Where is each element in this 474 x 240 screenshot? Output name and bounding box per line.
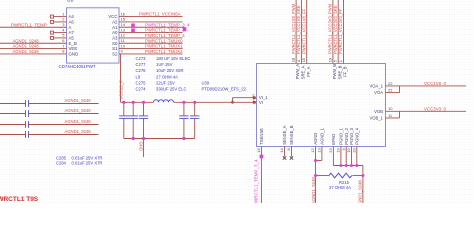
capacitor C273 <box>119 102 128 138</box>
svg-text:S1: S1 <box>112 46 118 51</box>
svg-text:PWRCTL1_VCC1V8_SRE: PWRCTL1_VCC1V8_SRE <box>296 5 301 54</box>
svg-text:A2: A2 <box>112 20 118 25</box>
svg-text:PGND_1: PGND_1 <box>339 127 344 144</box>
no-connect X SENSE_A <box>283 147 286 160</box>
svg-text:C275: C275 <box>136 81 147 86</box>
svg-text:C277: C277 <box>136 62 147 67</box>
svg-text:VOB: VOB <box>374 109 383 114</box>
svg-text:C274: C274 <box>136 87 147 92</box>
power module U39 PTD08D210W body <box>257 64 386 147</box>
U39 left pin numbers 2 and 1 <box>252 93 255 103</box>
junction pink square on pin13 wire <box>131 28 135 32</box>
svg-text:AGND1_9248: AGND1_9248 <box>65 98 92 103</box>
svg-text:VOB_1: VOB_1 <box>369 116 383 121</box>
wire pin3 PWRCTL1_TEMP <box>0 26 67 28</box>
svg-text:10: 10 <box>388 106 393 111</box>
svg-text:FF_A: FF_A <box>306 66 311 76</box>
svg-text:PWM_A: PWM_A <box>295 64 300 80</box>
capacitor C278 <box>139 102 148 138</box>
svg-text:PTD08D210W_EFS_22: PTD08D210W_EFS_22 <box>202 87 247 92</box>
wire FF_A net PWRCTL1_VCC1V8_FF <box>301 0 306 64</box>
wire PGND bus <box>333 165 363 167</box>
svg-text:AGND_1: AGND_1 <box>320 127 325 144</box>
wire pin11 net PWRCTL1_TMUX0 <box>119 38 183 43</box>
svg-text:C278: C278 <box>136 68 147 73</box>
svg-text:VCC: VCC <box>108 14 117 19</box>
svg-text:U39: U39 <box>202 81 210 86</box>
svg-text:AGND1_9248: AGND1_9248 <box>65 108 92 113</box>
capacitor C274 <box>190 102 199 138</box>
svg-text:A7: A7 <box>69 30 75 35</box>
capacitor C284 row AGND1_9248 <box>0 119 99 128</box>
value CD74HC4051PWT <box>59 64 96 69</box>
wire GND stub <box>143 139 145 158</box>
svg-text:PWRCTL1_TEMP_3_4: PWRCTL1_TEMP_3_4 <box>145 22 190 27</box>
wire PWM_B net PWRCTL1_VCC3V3_PWM <box>328 0 333 64</box>
refdes R215 <box>339 180 350 185</box>
svg-text:FF_B: FF_B <box>343 66 348 76</box>
svg-text:15: 15 <box>301 57 306 62</box>
U39 right pin names <box>369 84 383 121</box>
svg-text:AGND1_9248: AGND1_9248 <box>13 38 40 43</box>
svg-text:12: 12 <box>121 33 126 38</box>
svg-text:16: 16 <box>121 11 126 16</box>
svg-text:VOA: VOA <box>374 90 383 95</box>
wire VCC12_P vertical feed <box>120 54 122 102</box>
svg-text:18: 18 <box>291 57 296 62</box>
svg-text:CD74HC4051PWT: CD74HC4051PWT <box>59 64 96 69</box>
U39 right pin 22 wire net VCC1V8_0 <box>386 81 467 86</box>
svg-text:S0: S0 <box>112 41 118 46</box>
svg-text:TSENSE: TSENSE <box>259 128 264 145</box>
svg-text:VEE: VEE <box>69 46 78 51</box>
BOM text block <box>136 56 191 92</box>
svg-text:A6: A6 <box>69 20 75 25</box>
svg-text:13: 13 <box>121 27 126 32</box>
no-connect X SENSE_B <box>290 147 293 160</box>
node PWRCTL1_TEMP label <box>11 22 47 27</box>
svg-text:PWRCTL1_VCC3V3_SRE: PWRCTL1_VCC3V3_SRE <box>333 5 338 54</box>
svg-text:20: 20 <box>352 148 357 153</box>
svg-text:PGND_3: PGND_3 <box>349 127 354 144</box>
wire pin15 dangling <box>119 21 183 23</box>
svg-text:PWRCTL1_VCC3V3_FF: PWRCTL1_VCC3V3_FF <box>338 8 343 54</box>
svg-text:A3: A3 <box>112 36 118 41</box>
svg-text:AGND: AGND <box>313 133 318 145</box>
wire filter top rail right of L9 <box>174 101 257 103</box>
U39 bottom pin names inside <box>259 125 359 145</box>
svg-text:10: 10 <box>346 148 351 153</box>
svg-text:VCC12_P: VCC12_P <box>119 80 124 100</box>
wire pin14 net PWRCTL1_TEMP_3_4 <box>119 22 190 27</box>
wire branch to module pin2 <box>233 98 257 103</box>
svg-text:A1: A1 <box>112 25 118 30</box>
svg-text:C273: C273 <box>136 56 147 61</box>
svg-text:SENSE_B: SENSE_B <box>289 125 294 145</box>
svg-text:AGND1_9248: AGND1_9248 <box>311 177 316 203</box>
svg-text:19: 19 <box>327 57 332 62</box>
svg-text:C284: C284 <box>56 161 67 166</box>
svg-text:E_B: E_B <box>69 41 77 46</box>
wire PWM_A net PWRCTL1_VCC1V8_PWM <box>291 0 296 64</box>
wire EPAD drop <box>332 147 334 166</box>
svg-text:22UF 25V: 22UF 25V <box>156 81 175 86</box>
svg-text:L9: L9 <box>136 74 141 79</box>
svg-text:14: 14 <box>121 22 126 27</box>
refdes U8 <box>67 0 74 3</box>
svg-text:VI: VI <box>259 100 263 105</box>
U8 pin5 dangling stub <box>51 36 67 39</box>
svg-text:15: 15 <box>121 17 126 22</box>
capacitor C283 row AGND1_9248 <box>0 98 99 107</box>
svg-text:PWRCTL1_TEMP: PWRCTL1_TEMP <box>11 22 47 27</box>
node title PWRCTL1 T9S <box>0 196 39 203</box>
junction dot AGND join <box>314 159 317 162</box>
U39 bottom pin numbers <box>256 148 356 153</box>
junction pink square on TSENSE wire <box>260 155 264 159</box>
junction dots filter bottom rail <box>132 137 186 140</box>
svg-text:16: 16 <box>256 148 261 153</box>
svg-text:AGND1_9248: AGND1_9248 <box>357 180 362 203</box>
svg-text:A5: A5 <box>69 36 75 41</box>
wire pin9 net PWRCTL1_TMUX2 <box>119 49 183 54</box>
svg-text:PWRCTL1_VCC1V8_PWM: PWRCTL1_VCC1V8_PWM <box>291 3 296 54</box>
node GND label <box>138 142 143 151</box>
wire PGND_3 drop <box>351 147 353 166</box>
svg-text:330UF 25V ELC: 330UF 25V ELC <box>156 87 187 92</box>
wire PGND_4 drop <box>356 147 358 166</box>
wire AGND_1 pin13 jog <box>316 147 322 161</box>
U8 left pin names <box>69 14 79 56</box>
svg-text:PWRCTL1_VCCIN5A: PWRCTL1_VCCIN5A <box>139 12 181 17</box>
svg-text:VCC3V3_0: VCC3V3_0 <box>424 106 447 111</box>
svg-text:EPAD: EPAD <box>331 134 336 145</box>
node VCC12_P label <box>119 80 124 100</box>
svg-text:VOA_1: VOA_1 <box>369 84 383 89</box>
U8 right pin numbers <box>121 11 126 53</box>
svg-text:PWRCTL1_TEMP_3_4: PWRCTL1_TEMP_3_4 <box>254 159 259 203</box>
wire PGND_1 drop <box>340 147 342 166</box>
wire PGND_2 drop <box>345 147 347 166</box>
value 27 OHM 4A <box>329 185 351 190</box>
junction dot R215 left <box>314 174 317 177</box>
svg-text:SRE_A: SRE_A <box>301 65 306 79</box>
svg-text:PWRCTL1_TMUX2: PWRCTL1_TMUX2 <box>145 49 183 54</box>
wire pin8 AGND1_9248 <box>0 49 67 54</box>
junction pink square end of pin14 wire <box>183 28 187 32</box>
svg-text:27 OHM 4A: 27 OHM 4A <box>156 74 178 79</box>
U39 right pin 21 wire <box>386 86 400 93</box>
U39 top pin numbers <box>291 57 343 62</box>
svg-text:SENSE_A: SENSE_A <box>282 125 287 145</box>
svg-text:PWRCTL1_VCC3V3_PWM: PWRCTL1_VCC3V3_PWM <box>328 3 333 54</box>
svg-text:180 UF 16V ELEC: 180 UF 16V ELEC <box>156 56 190 61</box>
svg-text:PWRCTL1_TMUX1: PWRCTL1_TMUX1 <box>145 44 183 49</box>
inductor L9 <box>154 100 174 103</box>
svg-text:S2: S2 <box>112 52 118 57</box>
wire pin13 net PWRCTL1_TEMP_3 <box>119 28 185 33</box>
U8 pin2 dangling stub <box>51 20 67 23</box>
svg-text:AGND1_9248: AGND1_9248 <box>65 129 92 134</box>
svg-text:13: 13 <box>317 148 322 153</box>
svg-text:GND: GND <box>138 142 143 151</box>
svg-text:PWM_B: PWM_B <box>332 64 337 80</box>
U8 pin1 dangling stub <box>51 15 67 18</box>
junction dot at branch <box>231 101 234 104</box>
node AGND1_9248 label left <box>311 177 316 204</box>
svg-text:12: 12 <box>310 148 315 153</box>
U39 right pin 10 wire net VCC3V3_0 <box>386 106 467 111</box>
svg-text:SRE_B: SRE_B <box>337 65 342 79</box>
U8 right pin names <box>108 14 118 56</box>
capacitor C285 row AGND1_9248 <box>0 108 99 117</box>
svg-text:A: A <box>69 25 72 30</box>
svg-text:14: 14 <box>279 148 284 153</box>
svg-text:21: 21 <box>388 88 393 93</box>
svg-text:VCC1V8_0: VCC1V8_0 <box>424 81 447 86</box>
op-amp U8 analog mux CD74HC4051PWT body <box>67 8 120 63</box>
wire AGND pin12 down <box>315 147 317 204</box>
U39 right pin numbers <box>388 81 393 118</box>
wire pin10 net PWRCTL1_TMUX1 <box>119 44 183 49</box>
junction dots filter top rail <box>122 101 196 104</box>
value PTD08D210W_EFS_22 <box>202 87 247 92</box>
svg-text:27 OHM 4A: 27 OHM 4A <box>329 185 351 190</box>
svg-text:A4: A4 <box>69 14 75 19</box>
wire TSENSE net PWRCTL1_TEMP_3_4 <box>254 147 262 207</box>
svg-text:U8: U8 <box>67 0 74 3</box>
node AGND1_9248 label right <box>357 180 362 207</box>
U39 left pin names VI_1 VI <box>259 95 268 105</box>
svg-text:A0: A0 <box>112 30 118 35</box>
wire FF_B net PWRCTL1_VCC3V3_FF <box>338 0 343 64</box>
svg-text:PWRCTL1_TEMP_4: PWRCTL1_TEMP_4 <box>145 33 185 38</box>
U8 pin4 dangling stub <box>51 31 67 34</box>
wire pin7 AGND1_9248 <box>0 44 67 49</box>
U39 right pin 11 wire <box>386 111 400 118</box>
svg-text:AGND1_9248: AGND1_9248 <box>65 119 92 124</box>
wire filter top rail left of L9 <box>121 101 154 103</box>
capacitor C275 <box>179 102 188 138</box>
svg-text:23: 23 <box>328 148 333 153</box>
pin end squares VI pins <box>253 96 256 103</box>
wire SRE_B net PWRCTL1_VCC3V3_SRE <box>333 0 338 64</box>
svg-text:PGND_4: PGND_4 <box>355 127 360 144</box>
svg-text:19: 19 <box>336 148 341 153</box>
junction dot R215 right <box>361 174 364 177</box>
wire SRE_A net PWRCTL1_VCC1V8_SRE <box>296 0 301 64</box>
svg-text:10uF 25V X5R: 10uF 25V X5R <box>156 68 183 73</box>
resistor R215 <box>316 173 363 178</box>
capacitor C277 <box>129 102 138 138</box>
refdes C285 value <box>56 156 102 161</box>
junction pink square on pin14 wire <box>131 24 135 28</box>
svg-text:AGND1_9248: AGND1_9248 <box>13 49 40 54</box>
refdes C284 value <box>56 161 102 166</box>
svg-text:AGND1_9248: AGND1_9248 <box>13 44 40 49</box>
svg-text:1UF 25V: 1UF 25V <box>156 62 173 67</box>
wire filter bottom rail <box>124 138 195 140</box>
wire PGND vertical down <box>362 166 364 204</box>
svg-text:PWRCTL1_TEMP_3: PWRCTL1_TEMP_3 <box>145 28 185 33</box>
svg-text:22: 22 <box>388 81 393 86</box>
svg-text:PGND_2: PGND_2 <box>344 127 349 144</box>
refdes U39 <box>202 81 210 86</box>
svg-text:0.01uF 25V X7R: 0.01uF 25V X7R <box>72 161 103 166</box>
junction dots PGND bus <box>339 164 358 167</box>
U8 left pin numbers <box>62 11 65 53</box>
svg-text:PWRCTL1_VCC1V8_FF: PWRCTL1_VCC1V8_FF <box>301 8 306 54</box>
wire pin16 net PWRCTL1_VCCIN5A <box>119 12 183 17</box>
svg-text:GND: GND <box>69 52 79 57</box>
svg-text:10: 10 <box>121 43 126 48</box>
wire pin6 AGND1_9248 <box>0 38 67 43</box>
svg-text:PWRCTL1 T9S: PWRCTL1 T9S <box>0 196 39 203</box>
U39 top pin names inside <box>295 64 347 80</box>
svg-text:PWRCTL1_TMUX0: PWRCTL1_TMUX0 <box>145 38 183 43</box>
wire pin12 net PWRCTL1_TEMP_4 <box>119 33 185 38</box>
capacitor C286 row AGND1_9248 <box>0 129 99 138</box>
